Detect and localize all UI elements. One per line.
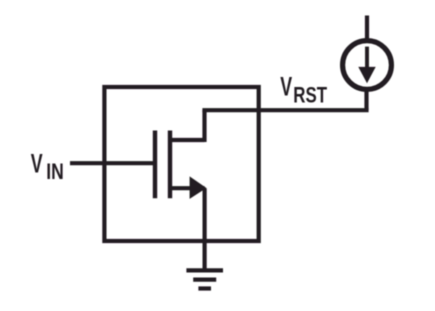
wire source to ground vertical xyxy=(203,188,207,270)
transistor Q1 channel bar xyxy=(168,131,172,199)
box (circuit block outline) xyxy=(104,87,258,241)
transistor Q1 source arrowhead xyxy=(190,176,207,199)
wire drain horizontal xyxy=(168,138,205,142)
ground bar 2 xyxy=(193,278,216,282)
ground bar 1 xyxy=(186,268,223,272)
current source I1 arrowhead xyxy=(358,67,375,83)
svg-text:RST: RST xyxy=(293,83,327,108)
svg-text:V: V xyxy=(31,148,43,179)
wire source horizontal xyxy=(168,186,205,190)
ground bar 3 xyxy=(198,286,211,290)
svg-text:IN: IN xyxy=(46,160,64,185)
label VRST xyxy=(280,71,327,109)
wire Vrst node horizontal xyxy=(202,108,368,112)
label VIN xyxy=(31,148,64,185)
wire drain vertical xyxy=(202,110,206,142)
svg-text:V: V xyxy=(280,71,292,102)
current source I1 bottom wire xyxy=(364,89,368,110)
transistor Q1 gate bar xyxy=(153,131,157,199)
current source I1 circle xyxy=(343,41,392,90)
current source I1 top wire xyxy=(365,16,369,42)
wire Vin to gate xyxy=(70,161,155,165)
current source I1 arrow shaft xyxy=(365,47,369,72)
